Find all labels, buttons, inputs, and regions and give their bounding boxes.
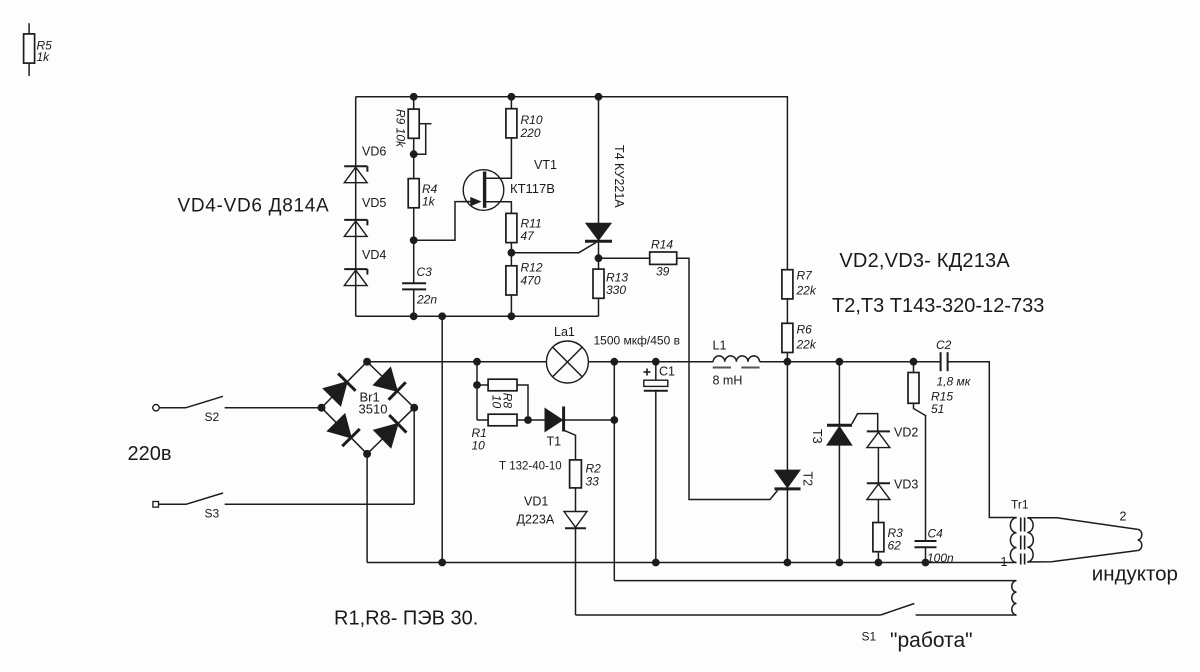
resistor R15 — [908, 362, 926, 541]
wire bottom bus — [367, 562, 1016, 564]
label C1 — [659, 365, 675, 379]
wire top bus — [356, 97, 788, 270]
node R1 right — [524, 416, 532, 424]
label R1 10 — [472, 426, 487, 453]
svg-text:Д223А: Д223А — [517, 513, 555, 527]
lamp La1 — [546, 341, 588, 383]
node osc-R12 — [508, 312, 516, 320]
svg-text:VD4-VD6 Д814А: VD4-VD6 Д814А — [178, 196, 330, 217]
label R12 470 — [521, 261, 543, 288]
zener VD6 — [344, 166, 367, 183]
svg-text:33: 33 — [586, 475, 600, 489]
label VD4-VD6 type — [178, 196, 330, 217]
node bus-C1 — [652, 358, 660, 366]
node R11-R12 — [508, 249, 516, 257]
label R5 1k — [37, 39, 53, 65]
label R3 62 — [888, 526, 904, 553]
node bridge right — [410, 404, 418, 412]
label VD1 type — [517, 513, 555, 527]
label Br1 value — [359, 402, 388, 417]
resistor R14 — [599, 252, 778, 500]
label R13 330 — [606, 271, 628, 298]
resistor R12 — [506, 253, 517, 317]
svg-text:220в: 220в — [128, 443, 172, 465]
label VD5 — [362, 196, 386, 210]
svg-text:Т 132-40-10: Т 132-40-10 — [499, 461, 562, 473]
R9 wiper tap — [414, 124, 432, 155]
node top-R9 — [410, 93, 418, 101]
svg-text:3510: 3510 — [359, 402, 388, 417]
label R4 1k — [422, 182, 438, 209]
svg-text:330: 330 — [606, 283, 626, 297]
resistor R9 — [408, 97, 419, 179]
bridge diode bottom-right — [374, 415, 406, 447]
resistor R2 — [570, 460, 582, 512]
label R11 47 — [521, 217, 542, 244]
svg-text:22k: 22k — [796, 284, 817, 298]
label rabota — [890, 629, 973, 652]
node top-R10 — [508, 93, 516, 101]
node bus-T1 — [610, 358, 618, 366]
svg-text:47: 47 — [521, 229, 536, 243]
svg-text:1k: 1k — [37, 50, 51, 64]
label induktor — [1092, 563, 1178, 586]
svg-text:VD2,VD3- КД213А: VD2,VD3- КД213А — [839, 250, 1010, 272]
svg-text:C3: C3 — [417, 265, 433, 279]
label Tr1 — [1011, 498, 1029, 512]
svg-text:T1: T1 — [547, 435, 562, 449]
svg-text:C4: C4 — [928, 527, 944, 541]
wire R8 branch — [476, 362, 478, 420]
node bridge left — [318, 404, 326, 412]
svg-text:1500 мкф/450 в: 1500 мкф/450 в — [594, 334, 680, 348]
wire T4 gate — [511, 243, 596, 253]
svg-text:R7: R7 — [797, 269, 814, 283]
Tr1 core — [1021, 518, 1025, 565]
wire VT1 base1 — [485, 202, 512, 214]
resistor R7 — [782, 270, 793, 324]
label C3 value — [416, 293, 437, 307]
svg-text:R6: R6 — [797, 323, 813, 337]
label VD2 — [894, 426, 918, 440]
L1 core — [713, 367, 760, 369]
svg-text:S2: S2 — [205, 410, 220, 424]
switch S3 — [153, 493, 414, 507]
svg-text:1: 1 — [1001, 555, 1008, 569]
label Br1 — [360, 390, 380, 405]
svg-text:R9 10k: R9 10k — [394, 109, 408, 148]
transistor VT1 — [463, 170, 504, 211]
svg-text:10: 10 — [490, 395, 504, 409]
svg-text:1k: 1k — [422, 195, 436, 209]
svg-text:R10: R10 — [521, 113, 543, 127]
label L1 value — [713, 374, 743, 388]
node bottom-R3 — [875, 559, 883, 567]
node bus-T3 — [836, 358, 844, 366]
capacitor C3 — [402, 240, 426, 316]
svg-text:S3: S3 — [205, 507, 220, 521]
wire bridge bottom drop — [366, 454, 368, 563]
label R14 — [651, 238, 673, 252]
label VT1 — [534, 158, 557, 172]
svg-text:VD3: VD3 — [894, 478, 918, 492]
resistor R10 — [506, 97, 517, 138]
node R9 tap — [410, 150, 418, 158]
label C3 — [417, 265, 433, 279]
svg-text:VD2: VD2 — [894, 426, 918, 440]
wire bridge right to S3 — [413, 408, 415, 505]
inductor horn top — [1027, 518, 1137, 530]
resistor R4 — [408, 179, 419, 241]
svg-text:индуктор: индуктор — [1092, 563, 1178, 586]
label L1 — [713, 339, 727, 353]
bridge diode left-bottom — [328, 414, 360, 446]
label pin 2 — [1120, 510, 1127, 524]
label R2 33 — [586, 462, 602, 489]
resistor R5 — [24, 23, 35, 76]
label VD6 — [362, 145, 386, 159]
svg-text:Т2,Т3 Т143-320-12-733: Т2,Т3 Т143-320-12-733 — [832, 295, 1044, 317]
zener VD5 — [344, 220, 367, 237]
node osc-drop — [438, 312, 446, 320]
diode VD2 — [867, 431, 890, 483]
node T4 cathode — [595, 254, 603, 262]
svg-text:2: 2 — [1120, 510, 1127, 524]
label T1 type — [499, 461, 562, 473]
wire S1 line — [576, 614, 881, 616]
wire oscillator bus — [356, 315, 599, 317]
svg-text:VD6: VD6 — [362, 145, 386, 159]
label T2 T3 type — [832, 295, 1044, 317]
label S1 — [862, 630, 877, 644]
label C1 value — [594, 334, 680, 348]
svg-text:R1,R8- ПЭВ 30.: R1,R8- ПЭВ 30. — [334, 608, 478, 630]
switch S1 — [881, 604, 1017, 616]
resistor R3 — [873, 523, 884, 563]
svg-text:22n: 22n — [416, 293, 437, 307]
label T3 — [810, 429, 824, 444]
capacitor C2 — [941, 352, 1017, 517]
label VD4 — [362, 248, 386, 262]
label R8 10 — [490, 393, 515, 409]
resistor R13 — [593, 258, 604, 316]
label VD1 — [524, 495, 548, 509]
capacitor C1 — [644, 362, 668, 563]
wire T3 gate — [852, 414, 878, 431]
svg-text:Т4 КУ221А: Т4 КУ221А — [612, 145, 626, 208]
diode VD1 — [564, 512, 587, 616]
resistor R8 — [477, 379, 528, 420]
node bottom-drop — [438, 559, 446, 567]
svg-text:S1: S1 — [862, 630, 877, 644]
svg-text:VD1: VD1 — [524, 495, 548, 509]
inductor horn coil — [1138, 529, 1142, 550]
label VD3 — [894, 478, 918, 492]
svg-text:R12: R12 — [521, 261, 543, 275]
svg-text:VT1: VT1 — [534, 158, 557, 172]
wire main bus 2 — [588, 361, 713, 363]
node R8 left — [473, 381, 481, 389]
svg-text:La1: La1 — [554, 325, 575, 339]
wire emitter VT1 — [414, 202, 471, 241]
node T1 cathode — [610, 416, 618, 424]
wire main bus 3 — [760, 361, 941, 363]
transformer Tr1 secondary — [1027, 518, 1033, 562]
transformer Tr1 winding 3 — [1012, 581, 1017, 615]
thyristor T4 — [585, 97, 612, 258]
switch S2 — [153, 396, 322, 411]
svg-text:R2: R2 — [586, 462, 602, 476]
transformer Tr1 primary — [1010, 518, 1016, 563]
svg-text:10: 10 — [472, 439, 486, 453]
label T2 — [801, 472, 815, 487]
node bottom-C1 — [652, 559, 660, 567]
svg-text:C1: C1 — [659, 365, 675, 379]
label R14 value — [656, 265, 670, 279]
node R4-C3 — [410, 236, 418, 244]
wire drop to bottom bus — [441, 316, 443, 562]
label R15 51 — [931, 390, 953, 417]
wire T1 node drop — [613, 362, 615, 581]
resistor R1 — [477, 414, 545, 426]
wire zener chain — [355, 97, 357, 316]
inductor horn bottom — [1027, 551, 1137, 563]
node bus-R8 — [473, 358, 481, 366]
inductor L1 — [713, 356, 759, 362]
svg-text:Tr1: Tr1 — [1011, 498, 1029, 512]
diode VD3 — [867, 483, 890, 522]
label pin 1 — [1001, 555, 1008, 569]
svg-text:КТ117В: КТ117В — [510, 181, 555, 196]
svg-text:VD4: VD4 — [362, 248, 386, 262]
label S2 — [205, 410, 220, 424]
wire T1 gate — [564, 430, 576, 460]
label R1 R8 type — [334, 608, 478, 630]
svg-text:62: 62 — [888, 539, 902, 553]
label VD2 VD3 type — [839, 250, 1010, 272]
svg-text:R14: R14 — [651, 238, 673, 252]
svg-text:Т2: Т2 — [801, 472, 815, 487]
svg-text:39: 39 — [656, 265, 670, 279]
label R9 10k — [394, 109, 408, 148]
label C4 value — [927, 551, 954, 565]
svg-text:C2: C2 — [936, 338, 952, 352]
label 220v — [128, 443, 172, 465]
svg-text:8 mH: 8 mH — [713, 374, 743, 388]
node bottom-T2 — [784, 559, 792, 567]
label T4 type — [612, 145, 626, 208]
label C1 plus — [644, 369, 651, 376]
thyristor T1 — [545, 407, 614, 432]
svg-text:L1: L1 — [713, 339, 727, 353]
svg-text:VD5: VD5 — [362, 196, 386, 210]
svg-text:51: 51 — [931, 402, 944, 416]
node bridge bottom — [363, 450, 371, 458]
label C2 — [936, 338, 952, 352]
node bus-R15 — [910, 358, 918, 366]
label R10 220 — [520, 113, 543, 140]
svg-text:220: 220 — [520, 126, 541, 140]
thyristor T2 — [775, 362, 801, 563]
label S3 — [205, 507, 220, 521]
wire feedback top — [614, 580, 1016, 582]
label VT1 type — [510, 181, 555, 196]
wire main bus — [367, 361, 546, 363]
bridge diode top-right — [374, 368, 406, 400]
label R6 22k — [796, 323, 817, 352]
resistor R11 — [506, 213, 517, 252]
wire bridge diamond — [322, 362, 415, 454]
wire VT1 base2 — [485, 138, 512, 178]
zener VD4 — [344, 269, 367, 286]
node bus-T2 — [784, 358, 792, 366]
node top-T4 — [595, 93, 603, 101]
label R7 22k — [796, 269, 817, 298]
node bottom-C4 — [922, 559, 930, 567]
resistor R6 — [782, 323, 793, 361]
svg-text:"работа": "работа" — [890, 629, 973, 652]
svg-text:22k: 22k — [796, 338, 817, 352]
label C4 — [928, 527, 944, 541]
svg-text:Т3: Т3 — [810, 429, 824, 444]
label T1 — [547, 435, 562, 449]
node osc-C3 — [410, 312, 418, 320]
node bridge top — [363, 358, 371, 366]
capacitor C4 — [915, 541, 937, 563]
thyristor T3 — [827, 362, 852, 563]
node bottom-T3 — [836, 559, 844, 567]
bridge diode left-top — [324, 373, 356, 405]
svg-text:470: 470 — [521, 274, 541, 288]
label La1 — [554, 325, 575, 339]
svg-text:1,8 мк: 1,8 мк — [937, 375, 972, 389]
label C2 value — [937, 375, 972, 389]
